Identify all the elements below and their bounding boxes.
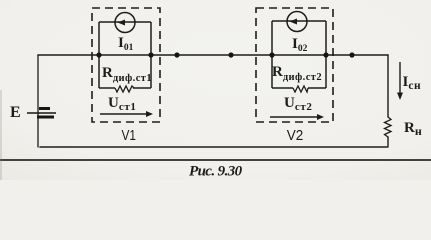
svg-text:Рис. 9.30: Рис. 9.30 — [189, 164, 243, 180]
junction node A — [96, 52, 101, 57]
junction node C — [174, 52, 179, 57]
resistor Rdif.st2 (zigzag) — [293, 86, 308, 92]
paper background — [0, 0, 431, 180]
wire V1 inner frame — [99, 22, 151, 88]
wire top rail — [38, 54, 388, 56]
wire left vertical — [37, 55, 39, 147]
voltage arrow Ust1 — [100, 111, 153, 117]
resistor Rdif.st1 (zigzag) — [115, 86, 134, 92]
wire bottom rail — [40, 146, 387, 148]
junction node G — [323, 52, 328, 57]
junction node F — [269, 52, 274, 57]
svg-text:V2: V2 — [287, 127, 304, 144]
scan shading left edge — [0, 90, 2, 180]
wire right vertical lower — [387, 137, 389, 147]
wire V2 inner frame — [272, 21, 326, 88]
resistor Rn (zigzag) — [385, 117, 392, 137]
current source I01 — [115, 13, 135, 33]
current arrow Isn — [397, 62, 403, 100]
junction node B — [148, 52, 153, 57]
svg-text:V1: V1 — [122, 127, 137, 144]
junction node H — [349, 52, 354, 57]
voltage arrow Ust2 — [270, 114, 324, 120]
svg-text:E: E — [10, 104, 21, 121]
separator line — [0, 159, 431, 161]
junction node D — [228, 52, 233, 57]
dashed box V2 — [256, 8, 333, 122]
wire right vertical — [387, 55, 389, 117]
current source I02 — [287, 12, 307, 32]
dashed box V1 — [92, 8, 160, 122]
voltage source E (battery) — [27, 109, 56, 118]
